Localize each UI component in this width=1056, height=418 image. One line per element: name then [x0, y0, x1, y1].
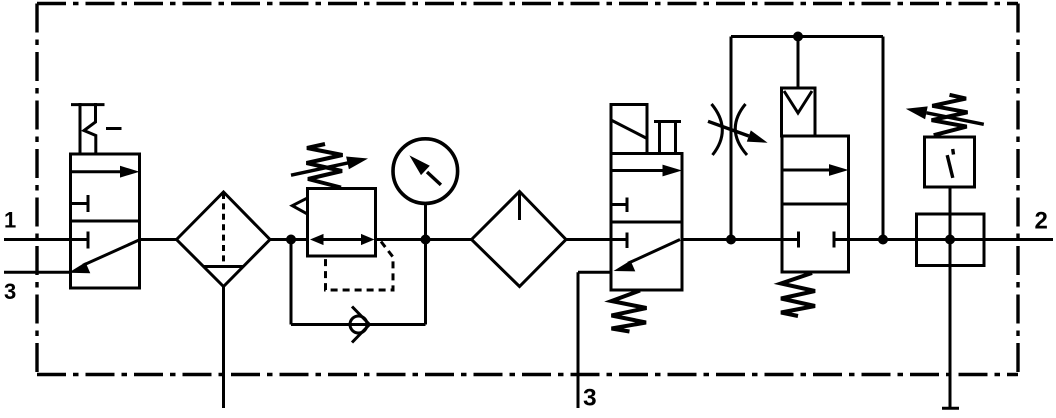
node V3 pilot top [793, 32, 803, 42]
R1 pilot dashed line [326, 242, 394, 291]
V2 solenoid coil [611, 105, 647, 154]
wire inside distributor (vertical) [949, 214, 952, 266]
V3 body [782, 136, 849, 272]
node V3 right [878, 235, 888, 245]
F1 separator triangle chord [204, 265, 243, 268]
V2 bottom-position blocked port T [611, 233, 627, 249]
S1 arrow [906, 106, 984, 124]
node gauge junction [421, 235, 431, 245]
hand slide valve V1 body [71, 154, 140, 288]
port 2 line [984, 238, 1053, 241]
R1 relief arrow [292, 198, 307, 214]
svg-text:2: 2 [1035, 208, 1048, 235]
S1 switch contact [947, 149, 953, 178]
node distributor [945, 235, 955, 245]
F2 element line [518, 193, 521, 220]
V3 pilot top line [731, 37, 883, 240]
node V3 left [726, 235, 736, 245]
wire V1 to filter F1 [140, 238, 178, 241]
hand slide valve V1 actuator [71, 103, 122, 154]
pressure switch S1 box [925, 137, 975, 187]
V2 top-position flow arrow [611, 165, 682, 177]
svg-text:1: 1 [4, 207, 16, 232]
exhaust line below distributor [949, 266, 952, 409]
svg-text:3: 3 [583, 385, 597, 412]
filter F2 diamond [472, 192, 567, 287]
V2 body [611, 154, 682, 291]
V1 exhaust arrow [69, 240, 140, 273]
distributor block [917, 214, 985, 266]
V3 return spring [781, 273, 815, 316]
port 3 line (left) [4, 271, 72, 274]
wire through distributor block [917, 238, 985, 241]
V2 manual override [654, 122, 681, 154]
wire V2 to soft-start valve V3 [682, 238, 782, 241]
V1 bottom-position blocked port T [71, 232, 89, 249]
port 1 line [4, 238, 72, 241]
V3 closed-position left T [782, 232, 799, 248]
R1 adjustment spring [307, 144, 343, 188]
wire F1 to regulator R1 [270, 238, 308, 241]
F1 drain line [222, 287, 225, 409]
filter F1 diamond [177, 192, 271, 287]
G1 needle [409, 155, 441, 185]
V2 exhaust line to port 3 [578, 272, 611, 408]
bypass line with check valve [291, 240, 426, 325]
V2 return spring [612, 291, 647, 332]
V3 throttle [708, 104, 768, 155]
regulator R1 body [308, 189, 376, 257]
S1 spring [932, 95, 968, 135]
V2 top-position blocked port T [611, 198, 627, 213]
S1 sensing line [949, 187, 952, 214]
R1 adjustment arrow [291, 157, 368, 176]
V2 exhaust arrow [614, 240, 681, 272]
node bypass branch [286, 235, 296, 245]
wire F2 to solenoid valve V2 [566, 238, 611, 241]
V1 top-position blocked port T [71, 195, 89, 212]
V1 top-position flow arrow [71, 166, 140, 178]
pressure gauge G1 dial [393, 139, 458, 204]
check valve circle and seat [350, 307, 370, 343]
R1 flow double arrow [310, 234, 375, 245]
exhaust T bar [942, 407, 959, 410]
pressure gauge G1 stem [424, 203, 427, 240]
wire V3 to distributor block [849, 238, 917, 241]
F1 dashed element line [222, 193, 225, 265]
V3 open-position flow arrow [782, 164, 849, 176]
V3 pilot head [782, 88, 816, 136]
svg-text:3: 3 [4, 279, 16, 304]
V3 closed-position right T [834, 232, 849, 248]
wire R1 to filter F2 [376, 238, 472, 241]
